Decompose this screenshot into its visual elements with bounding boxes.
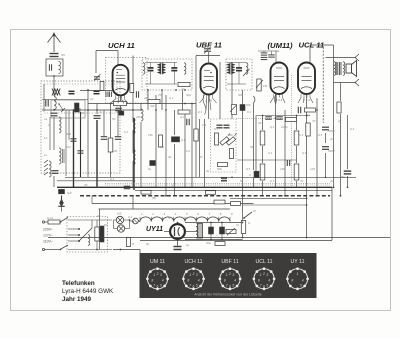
svg-text:30: 30: [84, 183, 88, 187]
tube UBF11: [201, 64, 218, 95]
resistor R27: [158, 135, 162, 147]
svg-text:40: 40: [168, 155, 172, 159]
pot P2: [226, 137, 235, 146]
svg-text:5k: 5k: [250, 145, 254, 149]
scale lamp 3: [133, 218, 139, 224]
svg-text:1M: 1M: [202, 123, 207, 127]
wire rail y110: [42, 109, 140, 111]
trimmer C3: [71, 138, 77, 140]
lamp wires: [114, 219, 117, 221]
cap dark c: [221, 177, 227, 179]
wire hook: [254, 96, 256, 103]
svg-text:(UM11): (UM11): [268, 41, 293, 50]
svg-text:8: 8: [258, 279, 260, 283]
svg-text:4: 4: [234, 279, 236, 283]
coil L3 with core: [59, 148, 61, 164]
svg-text:10: 10: [90, 97, 94, 101]
wire v x332 right: [331, 187, 333, 241]
svg-text:3n: 3n: [99, 110, 103, 114]
pin fanout UCH: [110, 99, 128, 104]
heater box line: [99, 208, 231, 210]
svg-text:0,2: 0,2: [186, 149, 191, 153]
svg-text:Lyra-H 6449 GWK: Lyra-H 6449 GWK: [62, 288, 114, 295]
svg-text:6: 6: [193, 285, 195, 289]
wire y99.5: [42, 99, 88, 101]
resistor R5: [194, 129, 198, 141]
resistor R13: [226, 229, 236, 233]
tube UCH11: [113, 65, 129, 96]
svg-text:70: 70: [158, 93, 162, 97]
coil L4 iron core: [44, 160, 48, 175]
coil L7: [141, 109, 143, 121]
resistor R26: [215, 242, 225, 246]
svg-text:5: 5: [160, 284, 162, 288]
svg-text:UCH 11: UCH 11: [108, 41, 135, 50]
left of UCH trimmer: [94, 76, 100, 78]
svg-text:8: 8: [187, 279, 189, 283]
heater left wire: [138, 220, 140, 223]
detector elco: [240, 105, 245, 111]
elco C10: [119, 111, 124, 115]
rail y190: [135, 189, 332, 191]
svg-text:7: 7: [153, 284, 155, 288]
svg-text:60: 60: [104, 223, 108, 227]
RF inner dashed box: [44, 84, 117, 113]
voltage selector dashed box: [67, 217, 108, 253]
wire: [53, 117, 55, 150]
resistor R3: [178, 110, 190, 114]
svg-text:2μ: 2μ: [337, 119, 342, 123]
resistor R20: [218, 163, 228, 167]
svg-text:2 3 4: 2 3 4: [276, 98, 283, 102]
UCL pin stubs: [300, 94, 302, 98]
heater taps: [139, 217, 141, 222]
svg-text:2k: 2k: [143, 96, 148, 100]
antenna: [53, 35, 55, 52]
wire y205 right: [243, 204, 307, 206]
resistor R28: [206, 191, 216, 195]
resistor R12: [294, 164, 299, 180]
IF1 top wires: [145, 62, 177, 64]
svg-text:0,1: 0,1: [268, 151, 273, 155]
resistor R7: [305, 108, 316, 112]
junction dots: [87, 109, 89, 111]
elco C23: [75, 103, 80, 112]
cap C24: [286, 160, 288, 166]
UBF cathode dashed box: [211, 119, 237, 172]
svg-text:0,5: 0,5: [214, 127, 219, 131]
wavy pin wires: [203, 95, 206, 115]
cap C15: [322, 146, 329, 148]
svg-text:1: 1: [226, 273, 228, 277]
svg-text:15k: 15k: [148, 133, 153, 137]
resistor R14: [241, 221, 245, 234]
wire rail y103: [88, 103, 196, 105]
svg-text:2: 2: [192, 272, 195, 276]
IF1 resistor: [178, 82, 190, 86]
bus y240: [140, 240, 332, 242]
IF1 capacitor dark: [148, 67, 154, 69]
cap below UY11: [177, 239, 179, 246]
heater chain arcs: [140, 217, 230, 222]
UM pin stubs: [273, 94, 275, 98]
svg-text:25k: 25k: [135, 115, 141, 119]
rail y198 right: [230, 197, 307, 199]
svg-text:110V~: 110V~: [43, 240, 53, 244]
svg-text:Jahr 1949: Jahr 1949: [62, 296, 92, 303]
svg-text:2M: 2M: [112, 149, 118, 153]
ground arrow symbol: [60, 199, 64, 203]
svg-text:Lc: Lc: [44, 153, 48, 157]
svg-text:0,2: 0,2: [128, 215, 133, 219]
svg-text:2: 2: [262, 272, 265, 276]
svg-text:2n: 2n: [329, 179, 334, 183]
svg-text:5: 5: [196, 284, 198, 288]
svg-text:2 3 4: 2 3 4: [303, 98, 310, 102]
tuner extra verticals: [49, 117, 51, 150]
svg-text:8: 8: [151, 279, 153, 283]
resistor R16 under UCH: [114, 101, 127, 105]
svg-text:1: 1: [189, 273, 191, 277]
svg-text:100p: 100p: [281, 125, 288, 129]
caps row y118: [265, 116, 272, 118]
resistor R2: [148, 100, 160, 104]
svg-text:220V~: 220V~: [43, 228, 53, 232]
smoothing choke: [198, 224, 203, 239]
svg-text:1: 1: [297, 272, 299, 276]
chassis solid bus y187: [57, 186, 332, 188]
bus junction dots: [96, 187, 98, 189]
svg-text:50μ: 50μ: [206, 241, 211, 245]
detector pot: [232, 105, 237, 115]
svg-text:UCH 11: UCH 11: [184, 259, 202, 265]
svg-text:2μ: 2μ: [185, 243, 190, 247]
bandswitch box: [51, 100, 85, 118]
svg-text:50k: 50k: [238, 93, 243, 97]
bus y177: [65, 176, 356, 178]
svg-text:Ansicht der Röhrensockel von d: Ansicht der Röhrensockel von der Lötseit…: [194, 293, 262, 297]
caps under: [80, 90, 112, 92]
capacitor C8: [124, 185, 131, 187]
svg-text:2: 2: [228, 272, 231, 276]
dial lamp 2: [117, 225, 124, 232]
svg-text:1M: 1M: [263, 84, 268, 88]
cap C17: [344, 170, 352, 172]
HT wires: [185, 222, 243, 224]
svg-text:6: 6: [229, 285, 231, 289]
dark elco power: [100, 226, 104, 242]
svg-text:5n: 5n: [240, 179, 244, 183]
wire: [53, 176, 55, 187]
IF1 coil hatch pair: [157, 64, 160, 66]
oscillator coil L2: [59, 117, 61, 133]
svg-text:3k: 3k: [206, 169, 210, 173]
svg-text:(B): (B): [152, 196, 156, 200]
bus y181: [57, 180, 135, 182]
svg-text:2: 2: [156, 272, 159, 276]
resistor R11: [260, 164, 265, 180]
IF2 capacitor dark: [236, 67, 242, 69]
svg-text:S: S: [248, 221, 250, 225]
IF1 capacitor dark b: [171, 67, 177, 69]
wire um top: [258, 50, 279, 52]
pin fanout UM: [270, 98, 285, 104]
resistor R15: [100, 82, 104, 91]
tube socket panel: [140, 253, 317, 298]
dial scale bar: [91, 196, 93, 204]
svg-text:3: 3: [196, 273, 198, 277]
svg-text:5: 5: [232, 284, 234, 288]
IF1 coil c light: [184, 63, 186, 74]
power verticals: [99, 209, 101, 250]
svg-text:10: 10: [181, 87, 185, 91]
svg-text:UCL 11: UCL 11: [255, 259, 272, 265]
cap C21: [297, 107, 299, 114]
tuning gang line 1: [73, 110, 75, 188]
svg-text:3: 3: [232, 273, 234, 277]
wire y115.5: [256, 115, 310, 117]
resistor R23: [126, 238, 130, 247]
svg-text:0,1: 0,1: [270, 179, 275, 183]
resistor R9: [260, 131, 265, 145]
svg-text:5μ: 5μ: [148, 167, 152, 171]
resistor R22: [141, 191, 151, 195]
pin fanout UBF: [200, 98, 217, 110]
svg-text:60: 60: [199, 155, 203, 159]
caps above UM: [261, 52, 268, 54]
UCH pin stubs: [115, 95, 117, 99]
resistor R7b: [286, 118, 297, 122]
svg-text:0,2A: 0,2A: [47, 216, 53, 220]
svg-text:+: +: [227, 233, 229, 237]
volume pot: [257, 79, 261, 91]
wire antenna to tuner: [53, 76, 55, 96]
barretter coil: [88, 235, 90, 246]
wires in selector box: [91, 220, 93, 228]
resistor R18: [214, 133, 218, 145]
svg-text:7: 7: [226, 284, 228, 288]
tube UCL11: [298, 63, 315, 95]
coil L6: [133, 149, 135, 165]
tuning gang line 2: [80, 112, 82, 177]
cap C11: [135, 91, 137, 98]
capacitor C6: [101, 136, 108, 138]
dark cap C22: [69, 90, 75, 92]
svg-text:8: 8: [291, 279, 293, 283]
IF transformer 1 dashed box: [142, 59, 192, 90]
svg-text:3: 3: [160, 273, 162, 277]
svg-text:1: 1: [153, 273, 155, 277]
resistor R24: [214, 200, 225, 204]
border frame: [11, 30, 391, 311]
svg-text:0,3: 0,3: [198, 110, 203, 114]
dial lamp 1: [116, 216, 123, 223]
mains wire bottom: [45, 249, 61, 251]
selector wiper: [79, 228, 92, 241]
cap C9: [115, 107, 122, 109]
svg-text:0,1: 0,1: [270, 125, 275, 129]
svg-text:La: La: [44, 117, 48, 121]
svg-text:20k: 20k: [221, 177, 227, 181]
svg-text:0,1: 0,1: [160, 145, 165, 149]
antenna coil box: [46, 59, 63, 76]
UCH dashed AVC box: [106, 57, 148, 103]
resistor R17 right of UCH: [130, 84, 134, 93]
AVC dotted h: [236, 117, 289, 119]
pin fanout UCL: [298, 98, 313, 104]
tuner dashed box: [41, 81, 120, 173]
svg-text:5μF: 5μF: [67, 191, 72, 195]
selector contacts: [68, 228, 78, 230]
resistor R25: [231, 202, 241, 206]
svg-text:4: 4: [162, 279, 164, 283]
UCH grid cap wire: [117, 51, 119, 65]
svg-text:0,1: 0,1: [110, 177, 115, 181]
wire verticals: [87, 90, 89, 177]
IF1 left curl: [143, 63, 145, 74]
svg-text:50k: 50k: [217, 167, 222, 171]
coil L5: [133, 118, 135, 134]
speaker jack bottom: [355, 79, 359, 86]
svg-text:0,1: 0,1: [302, 151, 307, 155]
UY11 cathode wire: [185, 231, 197, 233]
capacitor C5: [94, 115, 101, 117]
IF transformer 2 dashed box: [226, 59, 252, 90]
wire top UBF: [196, 55, 220, 57]
svg-text:4: 4: [198, 279, 200, 283]
svg-text:0,1: 0,1: [169, 96, 174, 100]
svg-text:0,1: 0,1: [180, 115, 185, 119]
bus y237: [48, 237, 390, 239]
selector resistor: [95, 227, 99, 241]
cap C16 dark: [254, 171, 259, 178]
tube UM11: [271, 63, 288, 95]
svg-text:UY 11: UY 11: [291, 259, 305, 265]
cap dark b: [224, 124, 230, 126]
svg-text:50k: 50k: [246, 103, 251, 107]
svg-text:125: 125: [310, 167, 315, 171]
svg-text:2n: 2n: [329, 137, 334, 141]
speaker top wire: [326, 57, 357, 59]
resistor R4 dark: [172, 137, 180, 142]
svg-text:5000: 5000: [328, 149, 335, 153]
resistor R19: [229, 149, 233, 159]
svg-text:6: 6: [157, 285, 159, 289]
svg-text:8μ: 8μ: [146, 242, 150, 246]
IF2 coil b light: [246, 63, 248, 74]
resistor R1: [108, 138, 113, 152]
svg-text:30: 30: [258, 121, 262, 125]
svg-text:0,1: 0,1: [124, 130, 129, 134]
AVC dotted v: [291, 75, 293, 187]
trimmer C4: [78, 150, 84, 152]
svg-text:6,3: 6,3: [350, 127, 355, 131]
svg-text:+: +: [216, 233, 218, 237]
dotted rail y184: [105, 183, 330, 185]
svg-text:MS: MS: [117, 212, 122, 216]
svg-text:0,1: 0,1: [247, 110, 252, 114]
svg-text:1k: 1k: [236, 223, 240, 227]
svg-text:30k: 30k: [228, 133, 233, 137]
svg-text:15k: 15k: [280, 167, 285, 171]
resistor R8: [306, 123, 310, 136]
switch contact marks: [59, 104, 63, 110]
elco C19: [209, 227, 214, 234]
svg-text:3: 3: [266, 273, 268, 277]
mains fuse: [48, 220, 60, 224]
bandswitch hatched coil: [52, 89, 55, 96]
cap dark a: [217, 124, 223, 126]
wire IF2 top: [227, 62, 246, 64]
svg-text:AM: AM: [65, 145, 71, 149]
wire UCL top: [309, 45, 311, 63]
trimmer above UBF: [204, 48, 211, 50]
svg-text:50k: 50k: [150, 104, 155, 108]
capacitor C7: [115, 136, 122, 138]
svg-text:0,5: 0,5: [246, 167, 251, 171]
capacitor C1: [51, 112, 58, 114]
speaker bottom wire: [334, 82, 357, 84]
svg-text:70: 70: [312, 119, 316, 123]
svg-text:90: 90: [97, 214, 101, 218]
svg-text:7: 7: [189, 284, 191, 288]
mains switch top: [60, 218, 68, 223]
svg-text:5000: 5000: [328, 129, 335, 133]
antenna capacitor: [50, 53, 59, 55]
svg-text:UM 11: UM 11: [150, 259, 165, 265]
IF2 coil hatch pair: [227, 64, 230, 66]
pot P1: [220, 137, 229, 146]
switch arm: [244, 212, 252, 218]
svg-text:500: 500: [66, 132, 71, 136]
resistor R10: [294, 131, 299, 145]
input coil L1: [54, 96, 56, 109]
output transformer: [335, 62, 337, 75]
svg-text:5: 5: [266, 284, 268, 288]
svg-text:50p: 50p: [186, 93, 191, 97]
resistor R21: [337, 102, 341, 113]
svg-text:Telefunken: Telefunken: [62, 280, 95, 287]
IF2 trimmer arrow: [243, 69, 250, 76]
elco C13: [150, 161, 156, 166]
svg-text:70: 70: [300, 179, 304, 183]
svg-text:0,5: 0,5: [318, 133, 323, 137]
svg-text:8: 8: [224, 279, 226, 283]
cap C14: [322, 126, 329, 128]
speaker: [346, 64, 352, 73]
tube UY11: [170, 224, 185, 239]
svg-text:50: 50: [112, 117, 116, 121]
speaker jack top: [355, 54, 359, 61]
svg-text:0,1: 0,1: [181, 138, 186, 142]
elco C18: [59, 189, 65, 193]
wire y160: [237, 159, 297, 161]
chassis dashed bus y196: [80, 195, 330, 197]
svg-text:7: 7: [260, 284, 262, 288]
svg-text:4: 4: [302, 279, 304, 283]
mains switch bottom: [60, 245, 68, 250]
UY11 anode wire: [164, 231, 170, 233]
cap C12: [186, 119, 188, 126]
svg-text:UY11: UY11: [146, 226, 163, 233]
svg-text:UBF 11: UBF 11: [221, 259, 238, 265]
svg-text:6: 6: [263, 285, 265, 289]
svg-text:2: 2: [151, 212, 154, 216]
svg-text:127V~: 127V~: [43, 234, 53, 238]
svg-text:4: 4: [268, 279, 270, 283]
svg-text:1: 1: [260, 273, 262, 277]
UBF pin stubs: [203, 95, 205, 99]
